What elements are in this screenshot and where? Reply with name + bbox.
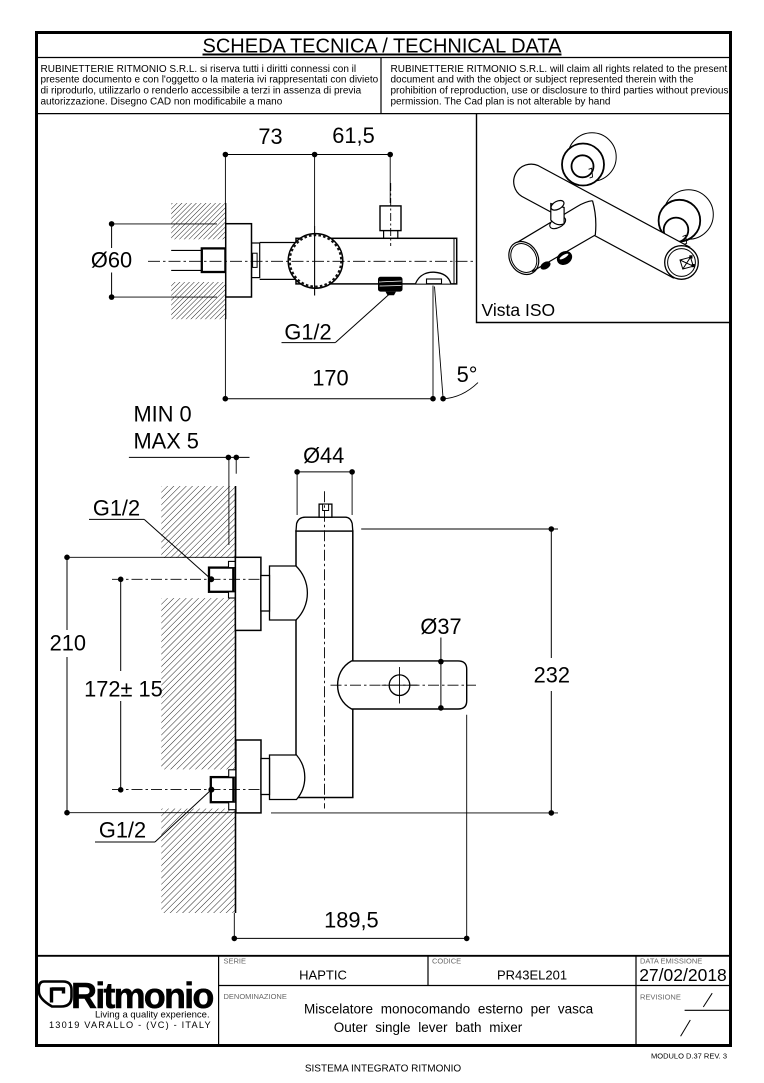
- dim dot at wall face: [223, 152, 229, 158]
- body cylinder: [514, 164, 690, 278]
- upper brackets: [229, 561, 236, 567]
- svg-text:DENOMINAZIONE: DENOMINAZIONE: [224, 992, 287, 1001]
- wall hatch lower: [171, 282, 226, 319]
- legal text italian: [41, 64, 379, 108]
- svg-text:document and with the object o: document and with the object or subject …: [391, 75, 694, 86]
- body cylinder: [296, 238, 457, 284]
- svg-text:5°: 5°: [457, 362, 478, 387]
- main body column: [296, 531, 353, 798]
- horizontal centerline: [148, 260, 476, 262]
- title row line: [35, 57, 732, 59]
- svg-text:Ø37: Ø37: [420, 614, 461, 639]
- lower elbow centerline: [262, 776, 313, 778]
- wall face line: [225, 203, 227, 319]
- wall hatch block 1: [161, 486, 235, 558]
- wall hatch block 2: [161, 598, 235, 769]
- svg-text:G1/2: G1/2: [99, 818, 146, 843]
- aerator dark marks: [554, 248, 574, 267]
- dia60 dimension: [111, 224, 113, 297]
- spout outline: [517, 201, 595, 272]
- lower brackets: [229, 770, 237, 777]
- svg-text:210: 210: [50, 631, 86, 656]
- svg-text:G1/2: G1/2: [284, 320, 331, 345]
- dim dots dia37: [438, 659, 444, 665]
- svg-text:RUBINETTERIE RITMONIO S.R.L. w: RUBINETTERIE RITMONIO S.R.L. will claim …: [391, 64, 728, 75]
- vertical line through circle: [314, 226, 316, 296]
- upper inlet centerline: [112, 578, 265, 580]
- svg-text:CODICE: CODICE: [432, 957, 461, 966]
- 5 degree lines: [432, 286, 434, 399]
- lever circle: [389, 675, 410, 696]
- dim dot at cartridge axis: [312, 152, 318, 158]
- lower wall flange: [236, 740, 261, 813]
- svg-text:di riprodurlo, utilizzarlo o r: di riprodurlo, utilizzarlo o renderlo ac…: [41, 86, 362, 97]
- svg-text:Ø44: Ø44: [303, 443, 344, 468]
- dim dot at diverter axis: [387, 152, 393, 158]
- diverter knob: [380, 206, 401, 231]
- dim dots 232: [549, 526, 555, 532]
- spout outlet arc: [416, 272, 451, 283]
- 172+-15 dimension: [120, 579, 122, 790]
- legal row bottom line: [35, 113, 732, 115]
- svg-text:REVISIONE: REVISIONE: [640, 993, 681, 1002]
- svg-text:SCHEDA TECNICA / TECHNICAL DAT: SCHEDA TECNICA / TECHNICAL DATA: [203, 36, 563, 58]
- aerator black: [378, 277, 403, 292]
- right flange disc: [664, 190, 714, 240]
- svg-text:presente documento e con l'ogg: presente documento e con l'oggetto o la …: [41, 75, 379, 86]
- svg-text:MAX 5: MAX 5: [134, 428, 199, 453]
- wall face line: [235, 486, 237, 913]
- extension lines: [224, 155, 226, 204]
- svg-text:PR43EL201: PR43EL201: [497, 968, 567, 983]
- svg-text:Vista ISO: Vista ISO: [482, 300, 556, 320]
- svg-text:170: 170: [312, 366, 348, 391]
- svg-text:Miscelatore monocomando estern: Miscelatore monocomando esterno per vasc…: [304, 1002, 594, 1017]
- end cap inner line: [453, 238, 455, 284]
- lower inlet centerline: [112, 789, 265, 791]
- upper elbow centerline: [262, 592, 313, 594]
- top square: [319, 504, 332, 517]
- svg-text:prohibition of reproduction,: prohibition of reproduction, use or disc…: [391, 86, 729, 97]
- revision slash 2: [681, 1020, 691, 1036]
- upper hex nut: [209, 568, 233, 592]
- handle lever: [338, 661, 467, 709]
- svg-text:61,5: 61,5: [332, 123, 374, 148]
- wall flange: [226, 224, 252, 297]
- knob dashed centerline: [390, 183, 392, 246]
- ISO view box: [477, 114, 733, 323]
- 189.5 dimension: [234, 937, 466, 939]
- svg-text:HAPTIC: HAPTIC: [299, 968, 347, 983]
- knob cylinder: [548, 215, 568, 232]
- wall hatch upper: [171, 203, 226, 239]
- square broach: [680, 257, 693, 269]
- dim dots dia44: [294, 469, 300, 475]
- cartridge circle knurled: [288, 234, 343, 289]
- Ritmonio logo: [39, 975, 214, 1030]
- spout cylinder: [517, 201, 595, 272]
- lower hex nut: [211, 777, 234, 802]
- svg-text:Outer single lever bath mixer: Outer single lever bath mixer: [334, 1020, 523, 1035]
- 210 dimension: [66, 557, 68, 812]
- legal column divider: [380, 58, 382, 114]
- upper eccentric elbow: [270, 566, 308, 620]
- dim dots 172: [118, 577, 124, 583]
- 232 dimension: [550, 529, 552, 813]
- svg-text:autorizzazione. Disegno CAD no: autorizzazione. Disegno CAD non modifica…: [41, 97, 283, 108]
- hex nut in wall: [202, 248, 226, 272]
- left flange disc: [568, 133, 616, 181]
- svg-text:MODULO D.37 REV. 3: MODULO D.37 REV. 3: [651, 1052, 727, 1061]
- dim dots 210: [64, 555, 70, 561]
- pipe flange to circle: [260, 243, 296, 280]
- upper wall flange: [235, 557, 261, 630]
- wall hatch block 3: [161, 809, 235, 913]
- svg-text:13019 VARALLO - (VC) - ITALY: 13019 VARALLO - (VC) - ITALY: [49, 1020, 212, 1030]
- svg-text:SERIE: SERIE: [224, 957, 247, 966]
- pipe stub in wall: [171, 250, 202, 270]
- svg-text:MIN 0: MIN 0: [134, 401, 192, 426]
- svg-text:RUBINETTERIE RITMONIO S.R.L. s: RUBINETTERIE RITMONIO S.R.L. si riserva …: [41, 64, 357, 75]
- svg-text:232: 232: [534, 663, 570, 688]
- svg-text:Ø60: Ø60: [91, 248, 132, 273]
- body centerline: [324, 491, 326, 808]
- svg-text:189,5: 189,5: [324, 908, 379, 933]
- svg-text:permission. The Cad plan is n: permission. The Cad plan is not alterabl…: [391, 97, 611, 108]
- 170 dimension: [225, 398, 433, 400]
- svg-text:G1/2: G1/2: [93, 496, 140, 521]
- cap dome: [296, 517, 353, 531]
- lever centerline: [331, 684, 477, 686]
- svg-text:SISTEMA INTEGRATO RITMONIO: SISTEMA INTEGRATO RITMONIO: [305, 1064, 462, 1075]
- revision slash 1: [703, 993, 712, 1007]
- body end face: [665, 246, 699, 280]
- svg-text:Living a quality experience.: Living a quality experience.: [95, 1009, 210, 1020]
- svg-text:172± 15: 172± 15: [84, 677, 163, 702]
- dim dots 189.5: [232, 936, 238, 942]
- svg-text:27/02/2018: 27/02/2018: [639, 965, 727, 985]
- lower eccentric elbow: [270, 755, 305, 800]
- TITLE BLOCK: [35, 956, 732, 1046]
- svg-text:73: 73: [258, 124, 282, 149]
- legal text english: [391, 64, 729, 108]
- seal detail: [253, 253, 258, 267]
- step behind flange: [252, 243, 260, 278]
- dim line 73/61.5: [225, 154, 390, 156]
